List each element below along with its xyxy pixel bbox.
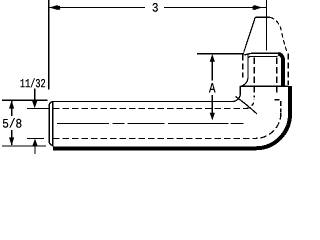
hidden bore inner corner arc [246,100,254,109]
hidden bore top line of bar [53,108,246,110]
arrowhead left of dim 3 [49,5,58,10]
dimension A upper line with up arrow [211,60,213,81]
bar centerline [57,122,244,124]
label 11/32 [21,78,46,87]
cylinder intersection curve at crotch [236,97,258,115]
hidden collar flank left [242,55,244,78]
dimension A lower line with down arrow [211,95,213,114]
extension line bar top (5/8) [2,99,48,101]
hidden outlet bore left line [253,58,255,98]
dimension line 3 left segment [49,7,145,9]
body top shoulder line [240,85,288,87]
extension line bar bottom (5/8) [2,145,46,147]
tip cone top left corner [254,17,256,20]
dimension 5/8 upper line and arrow [11,101,13,116]
extension line outlet centerline (for dim 3) [266,0,268,51]
bar left end inner edge [52,102,54,147]
dimension line 3 right segment [164,7,267,9]
tip cone right edge dashed [270,17,287,51]
bar left end chamfer bottom [49,143,53,146]
collar right side thick [281,58,285,86]
leader 11/32 upper with down arrow [34,89,36,102]
bar left end face [48,104,50,143]
label 3 [153,3,158,12]
extension line bore top (11/32) [27,108,49,110]
cap thick right corner [278,54,283,60]
tip cone top flat [256,16,270,18]
hidden bore bottom line of bar [53,137,256,139]
crotch fillet bar top to outlet [233,86,240,101]
hidden counterbore step [275,100,281,113]
body right side and bottom thick outline [53,86,290,148]
leader 11/32 lower with up arrow [34,145,36,154]
dimension 5/8 lower line and arrow [11,130,13,145]
label A [209,83,216,92]
tip cone left edge [244,20,255,52]
collar left side [247,54,249,79]
hidden outlet bore right line [276,58,278,95]
hidden collar flank right [287,54,289,86]
bar top edge [52,101,233,103]
bar left end chamfer top [49,102,52,104]
cap top line [251,52,279,54]
cap bevel left [244,53,251,55]
extension line left end of bar (for dim 3) [48,0,50,90]
hidden bore outer bend arc [256,113,281,138]
label 5/8 [3,118,22,128]
collar left bottom flare [242,79,248,87]
cap lower rim line [248,57,277,59]
extension line outlet shoulder (for dim A) [197,53,244,55]
arrowhead right of dim 3 [254,5,262,10]
extension line bore bottom (11/32) [27,137,44,139]
